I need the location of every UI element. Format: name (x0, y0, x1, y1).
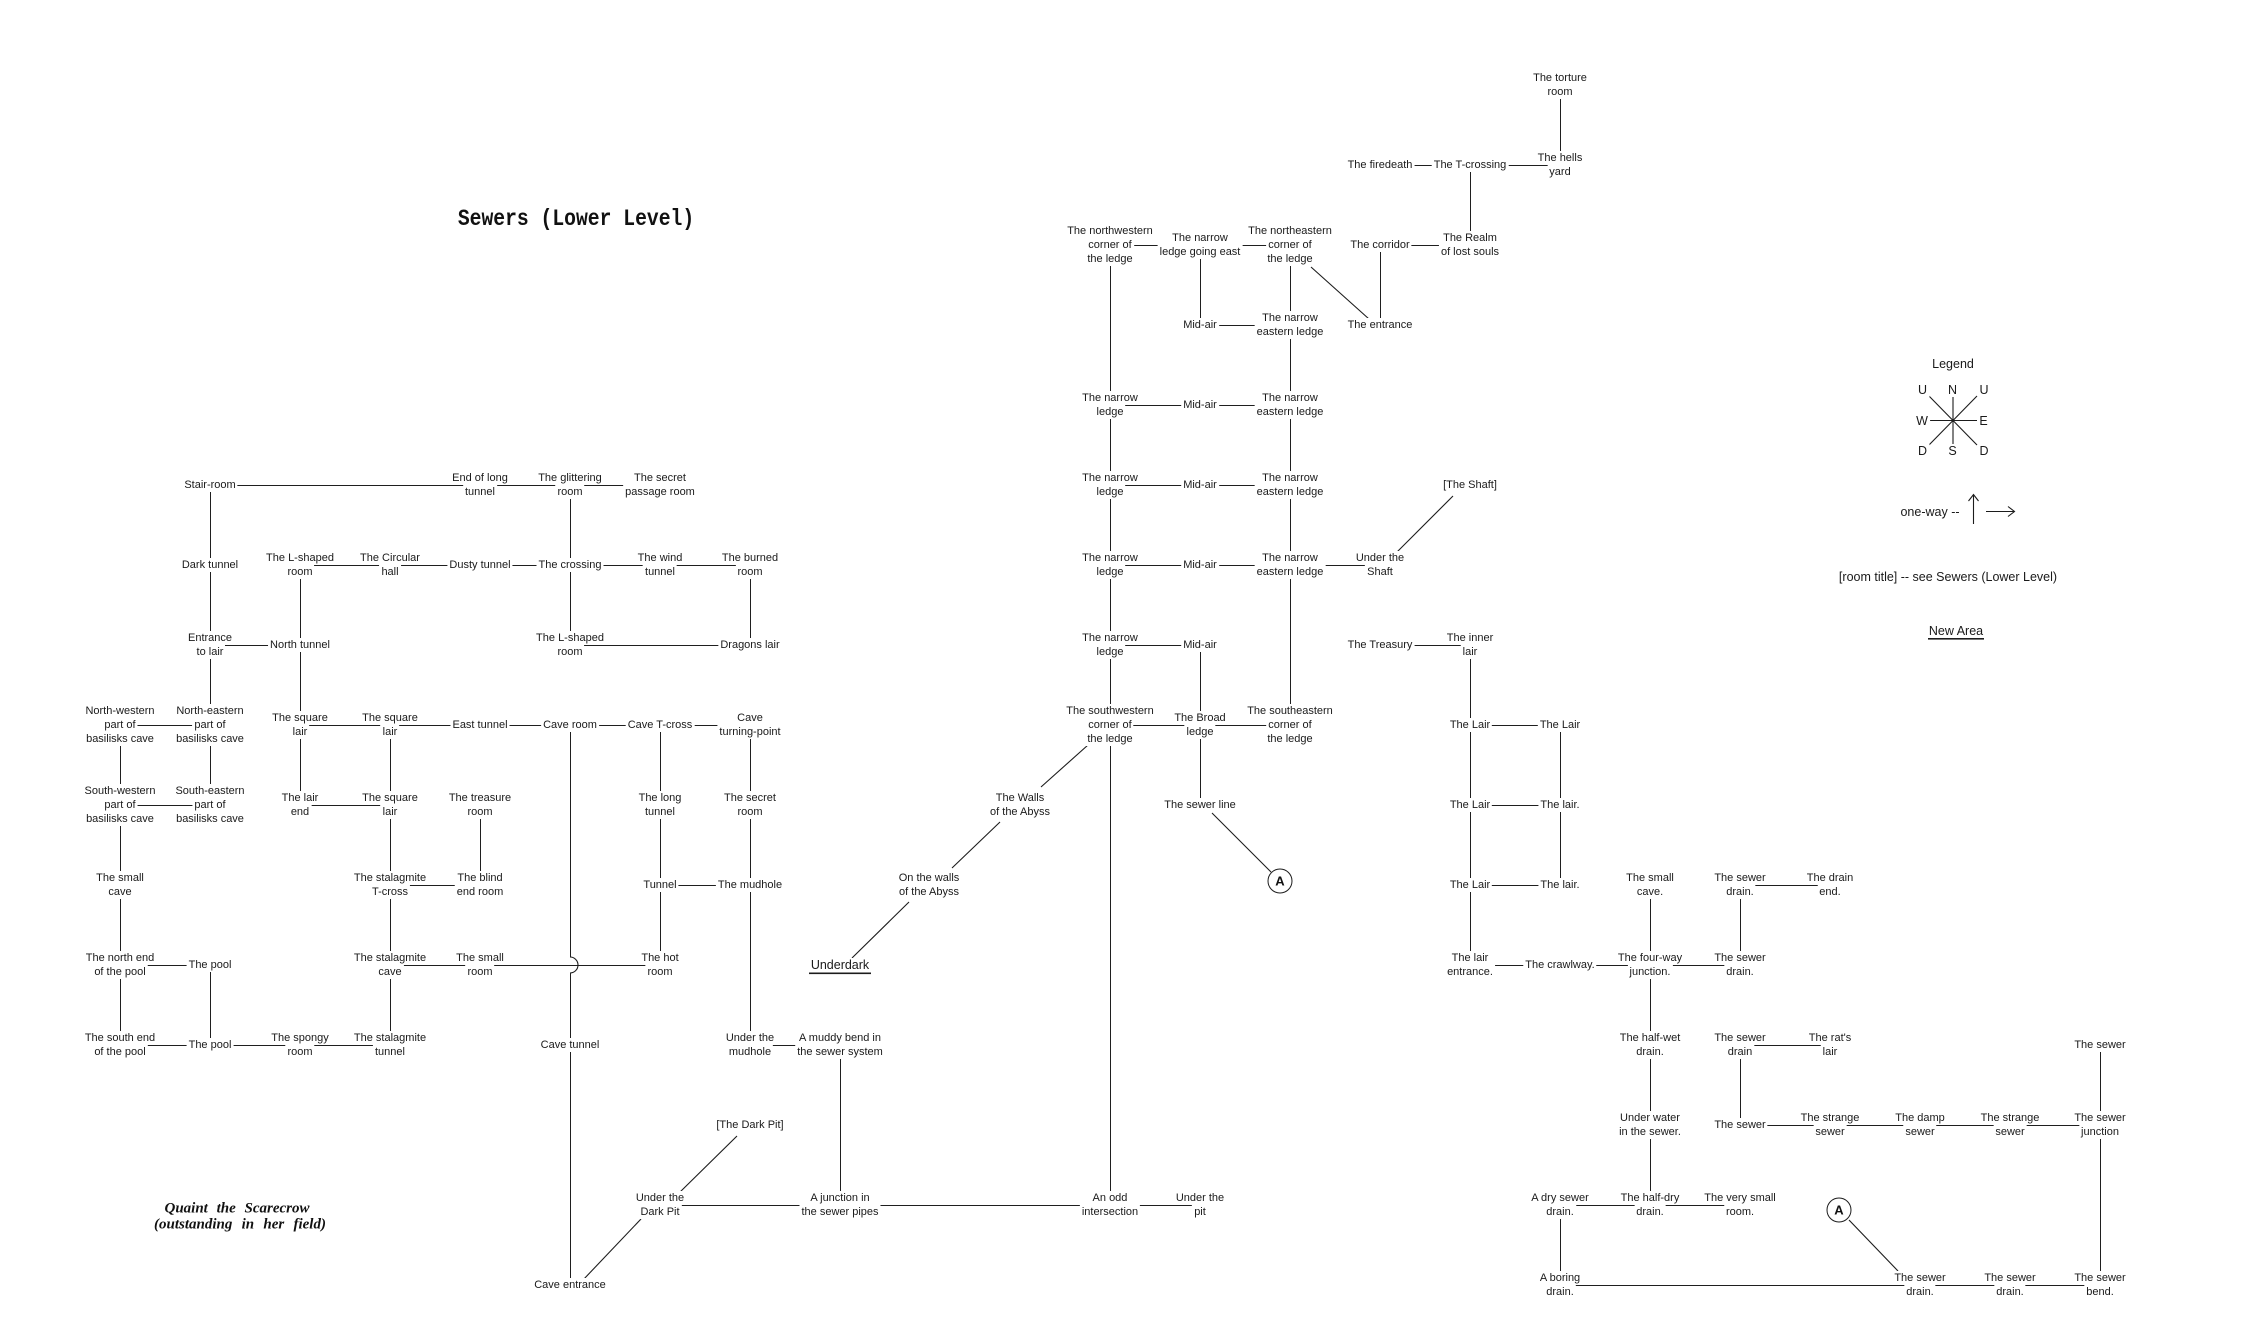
wire room link x=210 y=965-1045 (210, 966, 212, 1046)
room The Broad ledge (1172, 711, 1227, 739)
wire room link y=1125 x=1740-1830 (1741, 1125, 1831, 1127)
wire room link x=300 y=565-805 (300, 566, 302, 806)
wire room link y=1205 x=1650-1740 (1651, 1205, 1741, 1207)
room The narrow ledge going east (1158, 231, 1243, 259)
wire Cave tunnel vertical (lower part, below hop) (570, 974, 572, 1286)
room The four-way junction. (1616, 951, 1684, 979)
wire room link y=405 x=1110-1200 (1111, 405, 1201, 407)
wire room link y=245 x=1110-1200 (1111, 245, 1201, 247)
wire room link y=1205 x=840-1110 (841, 1205, 1111, 1207)
room The crossing (537, 558, 604, 572)
room The pool (north) (187, 958, 234, 972)
compass letter E (1977, 414, 1989, 428)
wire room link y=1205 x=1560-1650 (1561, 1205, 1651, 1207)
room The inner lair (1445, 631, 1495, 659)
room A muddy bend in the sewer system (795, 1031, 885, 1059)
wire room link y=245 x=1200-1290 (1201, 245, 1291, 247)
wire room link x=1470 y=165-245 (1470, 166, 1472, 246)
compass letter N (1946, 383, 1959, 397)
room The Lair (r8c15) (1448, 718, 1492, 732)
room Cave room (541, 718, 599, 732)
wire room link y=725 x=1470-1560 (1471, 725, 1561, 727)
legend New Area (1927, 624, 1985, 638)
room The sewer (r13c18) (1712, 1118, 1767, 1132)
room A junction in the sewer pipes (799, 1191, 880, 1219)
room Cave turning-point (717, 711, 782, 739)
wire room link x=1110 y=245-1205 (1110, 246, 1112, 1206)
compass letter D (1977, 444, 1990, 458)
room The southwestern corner of the ledge (1064, 704, 1155, 746)
room The narrow ledge (row6) (1080, 551, 1140, 579)
wire room link y=405 x=1200-1290 (1201, 405, 1291, 407)
room The mudhole (716, 878, 784, 892)
room Under the mudhole (724, 1031, 776, 1059)
room The south end of the pool (83, 1031, 157, 1059)
room The small room (454, 951, 506, 979)
wire room link y=1125 x=1920-2010 (1921, 1125, 2011, 1127)
room The wind tunnel (636, 551, 685, 579)
wire room link x=1560 y=1205-1285 (1560, 1206, 1562, 1286)
room [The Dark Pit] (714, 1118, 785, 1132)
room Under water in the sewer. (1617, 1111, 1683, 1139)
signature: Quaint the Scarecrow (164, 1201, 309, 1218)
room The secret room (722, 791, 778, 819)
room The corridor (1348, 238, 1411, 252)
room The half-dry drain. (1619, 1191, 1682, 1219)
wire room link y=805 x=1470-1560 (1471, 805, 1561, 807)
room An odd intersection (1080, 1191, 1140, 1219)
wire room link y=965 x=1470-1560 (1471, 965, 1561, 967)
signature line 2 (154, 1216, 326, 1233)
wire room link y=565 x=1200-1290 (1201, 565, 1291, 567)
room The northeastern corner of the ledge (1246, 224, 1334, 266)
wire room link x=1470 y=645-965 (1470, 646, 1472, 966)
room The sewer drain. (r15c20) (1892, 1271, 1947, 1299)
wire room link y=885 x=390-480 (391, 885, 481, 887)
room Dusty tunnel (447, 558, 512, 572)
wire passage Cave entrance to Under the Dark Pit (583, 1219, 641, 1280)
room Under the Dark Pit (634, 1191, 686, 1219)
room The narrow ledge (row4) (1080, 391, 1140, 419)
room The narrow eastern ledge (row4) (1255, 391, 1326, 419)
room The T-crossing (1432, 158, 1509, 172)
wire room link x=1200 y=645-805 (1200, 646, 1202, 806)
wire room link x=1290 y=245-725 (1290, 246, 1292, 726)
room The very small room. (1702, 1191, 1778, 1219)
wire room link y=725 x=660-750 (661, 725, 751, 727)
wire passage The Walls of the Abyss to The southwestern corner (1041, 745, 1088, 787)
node Underdark (area exit) (809, 958, 871, 972)
room The sewer drain. (r15c21) (1982, 1271, 2037, 1299)
room Cave tunnel (539, 1038, 602, 1052)
wire room link y=885 x=1740-1830 (1741, 885, 1831, 887)
wire room link y=805 x=300-390 (301, 805, 391, 807)
room The north end of the pool (84, 951, 157, 979)
wire room link y=485 x=210-480 (211, 485, 481, 487)
wire room link: The small room - The hot room (481, 965, 661, 967)
room North-western part of basilisks cave (83, 704, 156, 746)
room The firedeath (1346, 158, 1415, 172)
wire passage On the walls of the Abyss to The Walls of the Abyss (952, 822, 1000, 868)
wire room link y=565 x=480-570 (481, 565, 571, 567)
room The glittering room (536, 471, 604, 499)
room The damp sewer (1893, 1111, 1947, 1139)
room The rat's lair (1807, 1031, 1853, 1059)
room Mid-air (row4) (1181, 398, 1219, 412)
one-way right arrow (1986, 507, 2015, 517)
room The L-shaped room (west) (264, 551, 336, 579)
room The stalagmite cave (352, 951, 428, 979)
room The burned room (720, 551, 780, 579)
wire room link x=570 y=485-645 (570, 486, 572, 646)
room The sewer drain. (r11) (1712, 951, 1767, 979)
wire room link y=965 x=390-480 (391, 965, 481, 967)
room The Realm of lost souls (1439, 231, 1501, 259)
wire hop: Cave tunnel bridges over small room-hot room link (570, 957, 578, 973)
wire room link x=120 y=725-1045 (120, 726, 122, 1046)
compass letter U (1916, 383, 1929, 397)
wire room link y=485 x=1200-1290 (1201, 485, 1291, 487)
room The spongy room (269, 1031, 330, 1059)
room The narrow ledge (row7) (1080, 631, 1140, 659)
room The lair entrance. (1445, 951, 1495, 979)
wire room link y=485 x=480-570 (481, 485, 571, 487)
wire room link y=565 x=300-390 (301, 565, 391, 567)
room The entrance (1346, 318, 1415, 332)
wire passage link A to The sewer drain. (1849, 1220, 1898, 1271)
wire room link y=965 x=120-210 (121, 965, 211, 967)
wire room link y=1205 x=660-840 (661, 1205, 841, 1207)
room The Lair (r8c16) (1538, 718, 1582, 732)
room Entrance to lair (186, 631, 234, 659)
room The Walls of the Abyss (988, 791, 1052, 819)
room The hot room (639, 951, 680, 979)
room North tunnel (268, 638, 332, 652)
room Cave T-cross (626, 718, 695, 732)
room The sewer junction (2072, 1111, 2127, 1139)
room The long tunnel (637, 791, 684, 819)
wire room link y=165 x=1380-1470 (1381, 165, 1471, 167)
room The small cave (94, 871, 146, 899)
wire room link y=485 x=1110-1200 (1111, 485, 1201, 487)
room The stalagmite tunnel (352, 1031, 428, 1059)
room The drain end. (1805, 871, 1855, 899)
room Mid-air (row7) (1181, 638, 1219, 652)
room The narrow eastern ledge (row3) (1255, 311, 1326, 339)
legend title (1930, 357, 1976, 371)
room On the walls of the Abyss (897, 871, 962, 899)
room The Lair (r9c15) (1448, 798, 1492, 812)
wire room link y=165 x=1470-1560 (1471, 165, 1561, 167)
room Mid-air (row3) (1181, 318, 1219, 332)
room The sewer (r12c22) (2072, 1038, 2127, 1052)
room The lair. (r10c16) (1538, 878, 1581, 892)
room The Treasury (1346, 638, 1415, 652)
wire room link y=565 x=660-750 (661, 565, 751, 567)
room East tunnel (450, 718, 509, 732)
room Under the pit (1174, 1191, 1226, 1219)
room South-western part of basilisks cave (83, 784, 158, 826)
wire room link y=325 x=1200-1290 (1201, 325, 1291, 327)
wire room link y=1285 x=1920-2010 (1921, 1285, 2011, 1287)
wire room link y=725 x=300-390 (301, 725, 391, 727)
compass letter S (1946, 444, 1958, 458)
wire room link y=485 x=570-660 (571, 485, 661, 487)
wire room link y=1045 x=750-840 (751, 1045, 841, 1047)
wire room link y=885 x=1470-1560 (1471, 885, 1561, 887)
wire room link y=725 x=570-660 (571, 725, 661, 727)
compass letter U (1977, 383, 1990, 397)
wire room link y=725 x=1110-1200 (1111, 725, 1201, 727)
room The northwestern corner of the ledge (1065, 224, 1155, 266)
wire room link x=210 y=485-805 (210, 486, 212, 806)
wire room link y=965 x=1560-1650 (1561, 965, 1651, 967)
wire room link x=660 y=725-965 (660, 726, 662, 966)
wire room link x=1650 y=885-1205 (1650, 886, 1652, 1206)
wire room link x=750 y=725-1045 (750, 726, 752, 1046)
room The hells yard (1536, 151, 1585, 179)
legend room title note (1837, 570, 2059, 584)
room End of long tunnel (450, 471, 510, 499)
room The narrow ledge (row5) (1080, 471, 1140, 499)
room The strange sewer (r13c19) (1799, 1111, 1862, 1139)
underline for Underdark (809, 973, 871, 975)
room Mid-air (row5) (1181, 478, 1219, 492)
room The small cave. (1624, 871, 1676, 899)
room North-eastern part of basilisks cave (174, 704, 246, 746)
wire room link x=750 y=565-645 (750, 566, 752, 646)
room The sewer bend. (2072, 1271, 2127, 1299)
room The narrow eastern ledge (row5) (1255, 471, 1326, 499)
room A dry sewer drain. (1529, 1191, 1590, 1219)
wire room link y=725 x=480-570 (481, 725, 571, 727)
room Dragons lair (718, 638, 781, 652)
room The southeastern corner of the ledge (1245, 704, 1335, 746)
room Cave entrance (532, 1278, 608, 1292)
room The sewer line (1162, 798, 1238, 812)
room The sewer drain (r12) (1712, 1031, 1767, 1059)
wire room link y=645 x=210-300 (211, 645, 301, 647)
room The treasure room (447, 791, 513, 819)
wire room link y=965 x=1650-1740 (1651, 965, 1741, 967)
room The torture room (1531, 71, 1589, 99)
wire room link y=565 x=1290-1380 (1291, 565, 1381, 567)
wire room link y=725 x=1200-1290 (1201, 725, 1291, 727)
room Mid-air (row6) (1181, 558, 1219, 572)
wire room link y=1285 x=1560-1920 (1561, 1285, 1921, 1287)
wire room link x=390 y=725-1045 (390, 726, 392, 1046)
wire room link x=1560 y=85-165 (1560, 86, 1562, 166)
room The Lair (r10c15) (1448, 878, 1492, 892)
wire room link y=1285 x=2010-2100 (2011, 1285, 2101, 1287)
wire room link x=1200 y=245-325 (1200, 246, 1202, 326)
wire passage [The Shaft] to Under the Shaft (1397, 496, 1453, 552)
room Under the Shaft (1354, 551, 1406, 579)
wire passage Underdark to On the walls of the Abyss (852, 902, 909, 958)
room The L-shaped room (south) (534, 631, 606, 659)
wire passage The sewer line to link A (1212, 813, 1271, 872)
wire room link y=645 x=1110-1200 (1111, 645, 1201, 647)
room Tunnel (641, 878, 678, 892)
compass letter D (1916, 444, 1929, 458)
legend one-way text (1898, 505, 1961, 519)
wire room link y=565 x=390-480 (391, 565, 481, 567)
wire room link x=1380 y=245-325 (1380, 246, 1382, 326)
room The half-wet drain. (1618, 1031, 1683, 1059)
wire room link y=565 x=570-660 (571, 565, 661, 567)
wire passage The northeastern corner to The entrance (1311, 267, 1369, 319)
room The square lair (S) (360, 791, 420, 819)
room The square lair (NW) (270, 711, 330, 739)
link A (sewer drain) (1827, 1198, 1852, 1223)
room Stair-room (182, 478, 237, 492)
wire room link y=645 x=1380-1470 (1381, 645, 1471, 647)
wire room link x=480 y=805-885 (480, 806, 482, 886)
wire room link x=840 y=1045-1205 (840, 1046, 842, 1206)
link A (sewer line) (1268, 869, 1293, 894)
room The square lair (NE) (360, 711, 420, 739)
room The narrow eastern ledge (row6) (1255, 551, 1326, 579)
one-way up arrow (1969, 495, 2015, 525)
wire room link x=2100 y=1045-1285 (2100, 1046, 2102, 1286)
wire room link y=1045 x=120-210 (121, 1045, 211, 1047)
room The pool (south) (187, 1038, 234, 1052)
room South-eastern part of basilisks cave (173, 784, 246, 826)
room The stalagmite T-cross (352, 871, 428, 899)
compass rose lines (1929, 396, 1977, 445)
map title: Sewers (Lower Level) (458, 206, 694, 232)
wire room link y=1125 x=2010-2100 (2011, 1125, 2101, 1127)
room The strange sewer (r13c21) (1979, 1111, 2042, 1139)
room The crawlway. (1523, 958, 1596, 972)
wire passage [The Dark Pit] to Under the Dark Pit (678, 1136, 737, 1194)
underline for New Area (1928, 638, 1984, 640)
wire room link y=565 x=1110-1200 (1111, 565, 1201, 567)
wire room link y=725 x=120-210 (121, 725, 211, 727)
room The secret passage room (623, 471, 697, 499)
wire room link y=725 x=390-480 (391, 725, 481, 727)
room The lair. (r9c16) (1538, 798, 1581, 812)
wire room link y=1045 x=210-300 (211, 1045, 301, 1047)
room A boring drain. (1538, 1271, 1582, 1299)
wire room link y=1125 x=1830-1920 (1831, 1125, 1921, 1127)
wire room link y=885 x=660-750 (661, 885, 751, 887)
room Dark tunnel (180, 558, 240, 572)
wire room link y=1205 x=1110-1200 (1111, 1205, 1201, 1207)
wire room link y=1045 x=300-390 (301, 1045, 391, 1047)
wire room link y=1045 x=1740-1830 (1741, 1045, 1831, 1047)
wire room link x=1560 y=725-885 (1560, 726, 1562, 886)
room [The Shaft] (1441, 478, 1499, 492)
room The lair end (280, 791, 321, 819)
wire room link y=645 x=570-750 (571, 645, 751, 647)
room The blind end room (455, 871, 505, 899)
compass letter W (1914, 414, 1930, 428)
wire room link x=1740 y=885-965 (1740, 886, 1742, 966)
wire room link x=1740 y=1045-1125 (1740, 1046, 1742, 1126)
wire room link y=805 x=120-210 (121, 805, 211, 807)
room The Circular hall (358, 551, 422, 579)
wire room link y=245 x=1380-1470 (1381, 245, 1471, 247)
room The sewer drain. (r10) (1712, 871, 1767, 899)
wire Cave tunnel vertical (upper part, above hop) (570, 726, 572, 958)
